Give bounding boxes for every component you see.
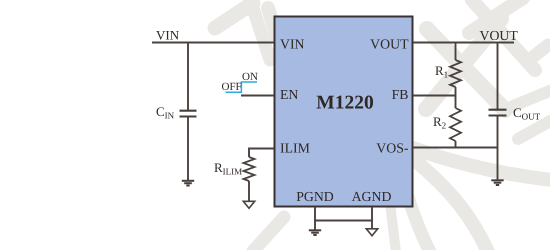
svg-text:R2: R2 [433, 114, 446, 131]
ground earth (PGND) [309, 230, 321, 235]
wire CIN branch [187, 43, 189, 111]
wire EN [241, 95, 274, 97]
svg-text:PGND: PGND [296, 189, 334, 204]
svg-text:COUT: COUT [513, 105, 541, 122]
wire COUT branch upper [497, 43, 499, 110]
wire VOS- [413, 147, 498, 149]
resistor RILIM [244, 157, 255, 181]
ground triangle (RILIM) [243, 201, 254, 208]
ground earth (VOS/COUT) [491, 180, 503, 185]
svg-text:VIN: VIN [156, 28, 180, 43]
EN step waveform (blue) [226, 82, 258, 92]
wire CIN to ground [187, 117, 189, 181]
wire R2 bottom lead [455, 141, 457, 148]
wire R1 top lead [455, 43, 457, 61]
svg-text:EN: EN [280, 87, 298, 102]
svg-text:OFF: OFF [222, 81, 242, 93]
svg-text:ILIM: ILIM [280, 141, 310, 156]
svg-text:VOUT: VOUT [370, 37, 409, 52]
capacitor CIN [180, 111, 197, 117]
wire RILIM to ground [248, 181, 250, 201]
capacitor COUT [489, 110, 507, 116]
IC U1 M1220 body [275, 17, 413, 207]
svg-text:FB: FB [392, 87, 409, 102]
svg-text:VIN: VIN [280, 37, 305, 52]
svg-text:VOS-: VOS- [376, 141, 409, 156]
svg-text:AGND: AGND [352, 189, 392, 204]
resistor R1 [450, 60, 461, 87]
watermark background (decorative) [215, 0, 550, 250]
svg-text:RILIM: RILIM [214, 160, 242, 177]
svg-text:VOUT: VOUT [480, 28, 519, 43]
ground triangle (AGND) [366, 229, 377, 236]
svg-text:CIN: CIN [156, 104, 175, 121]
wire R1 bottom lead / FB junction [455, 87, 457, 108]
svg-text:R1: R1 [435, 63, 448, 80]
wire FB [413, 95, 456, 97]
resistor R2 [450, 108, 461, 141]
ground earth (CIN) [182, 181, 194, 186]
wire COUT lower to ground [497, 116, 499, 180]
wire ILIM [249, 149, 274, 158]
wire AGND down [371, 220, 373, 229]
wire VOUT net: output rail [413, 42, 514, 44]
svg-text:M1220: M1220 [316, 93, 373, 114]
wire PGND stub [315, 207, 372, 221]
wire VIN net: input rail [152, 42, 274, 44]
wire PGND down [314, 220, 316, 230]
svg-text:ON: ON [242, 71, 258, 83]
